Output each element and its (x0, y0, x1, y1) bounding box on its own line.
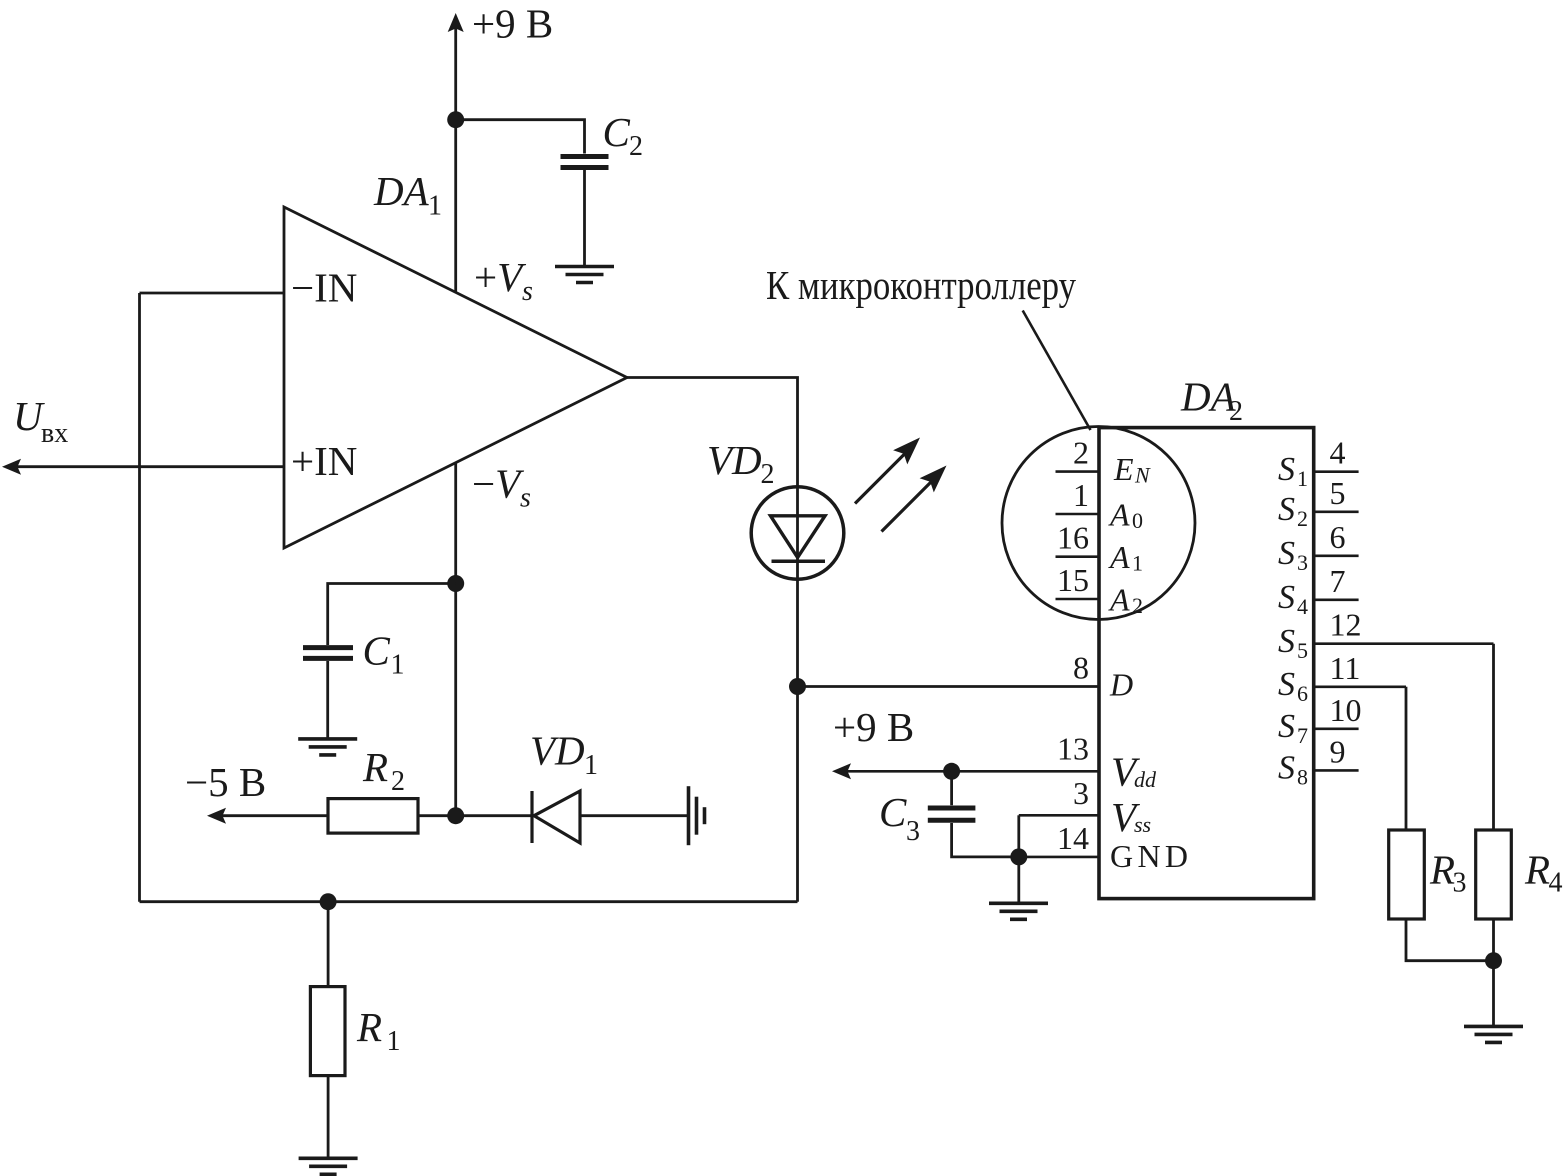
wire D to DA2 pin 8 (798, 685, 1100, 688)
diode VD1 (530, 728, 598, 844)
svg-text:R: R (356, 1004, 382, 1050)
wire C1 to ground (326, 661, 329, 738)
svg-text:2: 2 (761, 459, 775, 490)
svg-text:5: 5 (1297, 638, 1308, 663)
svg-text:1: 1 (1073, 477, 1089, 513)
svg-text:2: 2 (629, 131, 643, 162)
wire bottom rail (140, 900, 798, 903)
pin label -Vs (472, 461, 531, 514)
svg-text:вх: вх (41, 418, 68, 449)
wire to R1 (327, 902, 330, 987)
pin 7 S4 (1278, 563, 1359, 619)
svg-text:+9 В: +9 В (833, 704, 914, 750)
svg-text:N: N (1134, 463, 1151, 488)
wire +9V rail to +Vs (454, 27, 457, 292)
LED VD2 (707, 437, 844, 580)
svg-text:−5 В: −5 В (185, 759, 266, 805)
pin 12 S5 (1278, 607, 1494, 663)
svg-text:5: 5 (1330, 475, 1346, 511)
svg-text:15: 15 (1057, 562, 1089, 598)
pin 14 GND (1019, 820, 1188, 874)
svg-text:2: 2 (1297, 506, 1308, 531)
op-amp DA1 (284, 207, 627, 548)
capacitor C1 (303, 628, 405, 681)
node bottom rail/R1 (320, 893, 337, 910)
node LED/D junction (789, 678, 806, 695)
svg-text:S: S (1278, 451, 1295, 488)
svg-text:3: 3 (1453, 868, 1467, 899)
pin 15 A2 (1056, 562, 1144, 618)
pin 13 Vdd (847, 731, 1157, 795)
svg-text:14: 14 (1057, 820, 1089, 856)
svg-text:S: S (1278, 666, 1295, 703)
svg-text:4: 4 (1330, 435, 1346, 471)
svg-text:VD: VD (707, 437, 762, 483)
svg-text:S: S (1278, 579, 1295, 616)
svg-text:8: 8 (1073, 650, 1089, 686)
svg-text:16: 16 (1057, 520, 1089, 556)
svg-text:E: E (1113, 451, 1134, 487)
svg-text:2: 2 (391, 766, 405, 797)
pin 16 A1 (1056, 520, 1144, 576)
svg-text:R: R (362, 744, 388, 790)
ground below R3/R4 node (1464, 1026, 1523, 1042)
svg-text:6: 6 (1297, 681, 1308, 706)
svg-text:12: 12 (1330, 607, 1362, 643)
svg-text:4: 4 (1549, 868, 1563, 899)
capacitor C2 (561, 109, 644, 168)
wire -Vs down to R2 node (454, 463, 457, 816)
svg-text:C: C (363, 628, 391, 674)
capacitor C3 (879, 771, 1019, 857)
svg-text:1: 1 (584, 750, 598, 781)
svg-text:13: 13 (1057, 731, 1089, 767)
svg-text:+IN: +IN (291, 438, 357, 484)
svg-text:GND: GND (1110, 838, 1188, 874)
circle highlight around address pins (1002, 427, 1195, 620)
wire LED to node D (796, 581, 799, 902)
svg-text:К микроконтроллеру: К микроконтроллеру (766, 262, 1076, 308)
wire C1 branch (328, 584, 456, 646)
wire node to ground (1492, 961, 1495, 1025)
svg-text:+V: +V (474, 254, 526, 300)
wire C2 to ground (583, 170, 586, 266)
svg-text:1: 1 (1132, 551, 1143, 576)
svg-text:7: 7 (1330, 563, 1346, 599)
wire R4 bottom to node (1492, 919, 1495, 961)
svg-text:11: 11 (1330, 650, 1361, 686)
svg-text:3: 3 (1073, 775, 1089, 811)
pin 2 EN (1056, 435, 1152, 488)
pin 11 S6 (1278, 650, 1406, 706)
svg-text:ss: ss (1134, 812, 1151, 837)
svg-text:A: A (1108, 582, 1130, 618)
wire left rail (138, 293, 141, 902)
svg-text:4: 4 (1297, 594, 1308, 619)
pin 3 Vss (1019, 775, 1151, 840)
svg-text:S: S (1278, 535, 1295, 572)
wire S5 to R4 (1492, 644, 1495, 830)
power port +9 V (top arrow) (448, 1, 554, 47)
label DA1 (373, 168, 442, 222)
ground below C3 node (989, 903, 1048, 919)
node -Vs/C1 junction (447, 575, 464, 592)
svg-text:1: 1 (387, 1026, 401, 1057)
svg-text:9: 9 (1330, 733, 1346, 769)
svg-text:DA: DA (373, 168, 430, 214)
wire R1 to ground (327, 1076, 330, 1157)
port -5 V (arrow) (185, 759, 266, 824)
svg-text:R: R (1524, 847, 1550, 893)
svg-text:2: 2 (1073, 435, 1089, 471)
svg-text:R: R (1429, 847, 1455, 893)
pin label +Vs (474, 254, 533, 307)
wire -5V to R2 (222, 814, 328, 817)
node junction +9V/C2 (447, 111, 464, 128)
LED emission arrow 2 (882, 466, 947, 532)
port +9 V (DA2 supply arrow) (832, 704, 914, 779)
LED emission arrow 1 (855, 438, 920, 504)
ground below C1 (298, 739, 357, 755)
callout К микроконтроллеру (766, 262, 1091, 430)
svg-text:1: 1 (1297, 466, 1308, 491)
svg-text:10: 10 (1330, 692, 1362, 728)
svg-text:dd: dd (1134, 767, 1157, 792)
wire +IN input (17, 465, 284, 468)
svg-text:D: D (1109, 667, 1133, 703)
ground below R1 (299, 1158, 358, 1174)
node C3/GND junction (1010, 848, 1027, 865)
svg-text:S: S (1278, 750, 1295, 787)
svg-text:C: C (879, 789, 907, 835)
wire Vss down to GND node (1017, 815, 1020, 857)
wire GND node to ground (1017, 857, 1020, 902)
pin 5 S2 (1278, 475, 1359, 531)
svg-text:3: 3 (1297, 550, 1308, 575)
svg-text:8: 8 (1297, 765, 1308, 790)
wire S6 to R3 (1405, 687, 1408, 830)
svg-text:1: 1 (428, 191, 442, 222)
svg-text:0: 0 (1132, 508, 1143, 533)
resistor R3 (1389, 830, 1467, 919)
wire VD1 to ground (580, 814, 687, 817)
svg-text:−V: −V (472, 461, 524, 507)
pin 9 S8 (1278, 733, 1359, 789)
svg-text:−IN: −IN (291, 265, 357, 311)
wire R2 to node (418, 814, 531, 817)
node R3/R4 junction (1485, 952, 1502, 969)
svg-text:7: 7 (1297, 723, 1308, 748)
svg-text:3: 3 (906, 816, 920, 847)
svg-text:VD: VD (530, 728, 585, 774)
svg-text:2: 2 (1229, 396, 1243, 427)
svg-text:+9 В: +9 В (472, 1, 553, 47)
IC DA2 (1099, 428, 1314, 899)
svg-text:S: S (1278, 623, 1295, 660)
wire to C2 (456, 120, 585, 154)
pin 8 D (1073, 650, 1133, 703)
node Vdd/C3 junction (943, 763, 960, 780)
wire -IN input (140, 292, 285, 295)
svg-text:S: S (1278, 708, 1295, 745)
wire R3 bottom to node (1406, 919, 1494, 961)
svg-text:S: S (1278, 491, 1295, 528)
resistor R2 (328, 744, 418, 833)
ground below C2 (555, 267, 614, 283)
svg-text:1: 1 (391, 650, 405, 681)
resistor R4 (1476, 830, 1563, 919)
node R2/VD1/-Vs junction (447, 807, 464, 824)
pin 4 S1 (1278, 435, 1359, 491)
wire op-amp output (627, 378, 798, 486)
label DA2 (1180, 374, 1243, 428)
port U_vx (input arrow) (2, 393, 68, 475)
resistor R1 (310, 987, 400, 1076)
pin 1 A0 (1056, 477, 1144, 533)
ground (rotated) right of VD1 (689, 786, 705, 845)
svg-text:A: A (1108, 539, 1130, 575)
svg-text:C: C (603, 109, 631, 155)
svg-text:6: 6 (1330, 519, 1346, 555)
pin 10 S7 (1278, 692, 1362, 748)
svg-text:s: s (520, 483, 531, 514)
svg-text:A: A (1108, 497, 1130, 533)
pin 6 S3 (1278, 519, 1359, 575)
svg-text:s: s (522, 276, 533, 307)
